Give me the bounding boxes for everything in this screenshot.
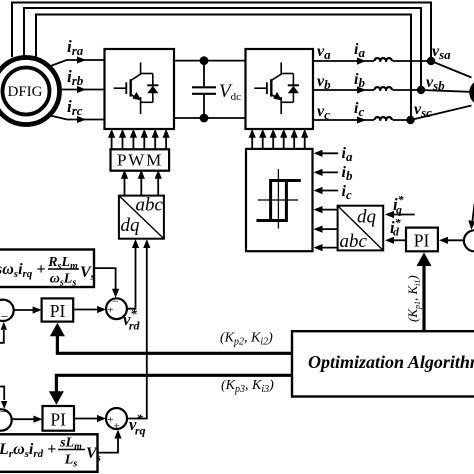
summing junction S5 (v_rq): [106, 408, 127, 429]
IGBT gate bar: [266, 82, 268, 94]
wire v_rd* up to abc/dq block: [127, 247, 136, 309]
svg-text:dq: dq: [121, 215, 141, 236]
diode cathode bar: [288, 84, 299, 86]
arrow into S2 bottom: [1, 322, 7, 330]
compensation term box (d-axis): [0, 250, 94, 288]
node DC+ junction: [200, 56, 209, 65]
wires hysteresis block to grid-side converter (6 gate signals): [251, 137, 253, 149]
wire stator phase a loop (left x=12 / top y=2.5 / right x=431): [12, 3, 431, 59]
svg-text:PI: PI: [50, 301, 66, 321]
big arrow (Kp2,Ki2) into PI rotor-d: [50, 323, 65, 337]
node DC- junction: [200, 114, 209, 123]
wire v_sc to grid: [411, 106, 472, 121]
hysteresis loop: [256, 181, 300, 221]
arrow into PI rotor-d: [33, 306, 42, 313]
wire DC bus positive rail: [174, 60, 246, 62]
svg-text:DFIG: DFIG: [7, 84, 42, 100]
IGBT gate bar: [125, 82, 127, 94]
svg-text:PI: PI: [50, 410, 66, 430]
svg-text:PWM: PWM: [117, 151, 163, 170]
IGBT collector stub: [280, 62, 282, 74]
fraction bar (q-axis box): [58, 449, 85, 451]
node v_sc: [406, 116, 414, 124]
IGBT channel bar: [129, 79, 131, 96]
svg-text:PI: PI: [414, 231, 430, 251]
grid-side converter box U2: [246, 49, 314, 129]
arrow into S5 left: [97, 415, 106, 422]
diode triangle: [147, 86, 158, 93]
diagonal of dq/abc block: [338, 206, 384, 251]
capacitor C_dc plates: [192, 86, 216, 88]
wire S2 to PI rotor-d: [14, 309, 33, 311]
wire v_sa to grid: [431, 61, 472, 78]
IGBT emitter wire: [140, 97, 142, 114]
wire v_sb to grid: [421, 90, 470, 92]
arrow into S1 top: [468, 220, 474, 230]
wire phase b after inductor: [393, 89, 422, 91]
arrow i_q*: [385, 211, 394, 218]
arrow i_b on phase b: [357, 86, 366, 93]
hysteresis symbol vertical axis: [277, 169, 279, 229]
IGBT bottom node wire: [280, 101, 293, 103]
wires stator current inputs i_a i_b i_c into hysteresis block: [322, 152, 339, 154]
IGBT top node wire: [140, 73, 153, 75]
arrow i_a on phase a: [357, 57, 366, 64]
svg-text:Optimization Algorithm: Optimization Algorithm: [308, 352, 474, 372]
node v_sa: [427, 57, 435, 65]
diode triangle: [288, 86, 299, 93]
inductor phase b: [375, 87, 392, 90]
IGBT collector angled lead: [131, 74, 141, 81]
IGBT bottom node wire: [140, 101, 153, 103]
inductor phase c: [375, 117, 392, 120]
DFIG machine inner circle: [3, 68, 50, 115]
wire DC bus negative rail: [174, 117, 246, 119]
wire i_q* reference input: [394, 214, 415, 216]
arrow i_c on phase c: [357, 116, 366, 123]
arrow i_rc: [77, 116, 86, 123]
wire i_rd feedback into S2: [0, 330, 4, 343]
svg-text:abc: abc: [340, 231, 368, 252]
IGBT gate lead: [254, 87, 267, 89]
optimization algorithm block: [292, 331, 474, 396]
svg-text:abc: abc: [136, 195, 164, 216]
big arrow (Kp3,Ki3) into PI rotor-q: [49, 391, 64, 405]
wires dq->abc block to PWM (3 signals): [124, 178, 126, 196]
arrow into S5 bottom: [114, 430, 121, 439]
wire phase a v_a line: [313, 60, 374, 62]
wire stator phase c loop (x=36 / y=14.5 / x=411): [36, 15, 411, 118]
rotor-side converter box U1: [105, 49, 175, 129]
svg-text:Lrωsird +: Lrωsird +: [0, 441, 56, 460]
wire into summing junction S1 top: [472, 204, 474, 222]
diode branch upper wire: [152, 74, 154, 86]
wire S3 to PI rotor-q: [12, 418, 34, 420]
fraction bar (d-axis box): [48, 268, 79, 270]
PWM box: [111, 149, 170, 170]
IGBT emitter angled lead with arrow: [131, 95, 140, 100]
PI controller box rotor-d U4: [42, 298, 74, 321]
svg-text:−: −: [1, 309, 8, 324]
arrow i_ra: [77, 56, 86, 63]
diode branch lower wire: [152, 93, 154, 102]
wire rotor phase a i_ra: [48, 60, 105, 67]
big arrow (Kp1,Ki1) into PI grid: [417, 253, 432, 267]
summing junction S4 (v_rd): [106, 298, 127, 319]
diode branch upper wire: [292, 74, 294, 86]
arrow v_rd* into abc/dq block: [132, 239, 139, 248]
summing junction S3 (rotor q, cut off): [0, 409, 12, 430]
IGBT channel bar: [270, 79, 272, 96]
inductor phase a: [375, 58, 392, 61]
label (Kp1, Ki1) rotated: [405, 275, 422, 322]
wire compensation d-axis to summing junction S4: [94, 268, 116, 289]
arrow into PI (grid): [439, 237, 448, 244]
capacitor C_dc bottom lead: [203, 95, 205, 118]
IGBT collector angled lead: [271, 74, 281, 81]
compensation term box (q-axis): [0, 434, 98, 472]
DFIG machine outer circle: [0, 58, 60, 125]
svg-text:dq: dq: [357, 207, 377, 228]
arrow into S3 top: [1, 401, 7, 409]
abc/dq transformation block (rotor side): [119, 196, 164, 239]
hysteresis current controller box: [246, 149, 313, 251]
grid circle (cut off at right edge): [472, 82, 474, 103]
wire phase c v_c line: [313, 119, 374, 121]
arrow v_rq* into abc/dq block: [143, 239, 150, 248]
IGBT top node wire: [280, 73, 293, 75]
wire stator phase b loop (x=24 / y=8 / x=421): [24, 8, 421, 87]
svg-text:−: −: [112, 294, 119, 308]
node v_sb: [417, 86, 425, 94]
hysteresis symbol horizontal axis: [258, 199, 298, 201]
svg-text:+: +: [114, 421, 120, 433]
wires dq->abc reference currents into hysteresis block: [322, 209, 338, 211]
IGBT gate lead: [114, 87, 127, 89]
thick gain wire (Kp2,Ki2) to PI rotor-d: [57, 334, 292, 353]
wire phase c after inductor: [393, 119, 411, 121]
wire phase b v_b line: [313, 89, 374, 91]
arrow into S4 top: [112, 289, 119, 298]
wire rotor phase b i_rb: [59, 89, 105, 91]
diagonal of abc/dq block: [119, 196, 164, 239]
thick gain wire (Kp1,Ki1) from optimization block to PI grid: [422, 263, 425, 331]
arrow i_rb: [77, 86, 86, 93]
IGBT collector stub: [140, 62, 142, 74]
arrow i_d*: [385, 237, 394, 244]
wires PWM to rotor-side converter (6 gate signals): [111, 137, 113, 150]
arrow into S4 left: [97, 306, 106, 313]
wire phase a after inductor: [393, 60, 432, 62]
arrow into PI rotor-q: [34, 416, 43, 423]
diode branch lower wire: [292, 93, 294, 102]
IGBT emitter wire: [280, 97, 282, 114]
wire compensation q-axis to summing junction S5: [98, 438, 119, 453]
PI controller box (grid side) U3: [406, 228, 438, 252]
dq/abc transformation block (grid side): [338, 206, 384, 251]
diode cathode bar: [147, 84, 158, 86]
wire i_rq feedback into S3: [0, 387, 4, 401]
wire rotor phase c i_rc: [48, 115, 105, 120]
wire summing junction to PI (grid): [448, 239, 464, 241]
wire v_rq* up to abc/dq block: [127, 247, 147, 419]
capacitor C_dc top lead: [203, 61, 205, 87]
thick gain wire (Kp3,Ki3) to PI rotor-q: [56, 375, 292, 394]
wire PI rotor-q to summing junction S5: [74, 418, 98, 420]
wire PI rotor-d to summing junction S4: [73, 309, 97, 311]
PI controller box rotor-q U5: [43, 406, 75, 431]
summing junction S1 (grid, cut off): [464, 230, 474, 251]
wire PI1(grid) output i_d*: [394, 239, 407, 241]
IGBT emitter angled lead with arrow: [271, 95, 280, 100]
summing junction S2 (rotor d, cut off): [0, 300, 14, 321]
